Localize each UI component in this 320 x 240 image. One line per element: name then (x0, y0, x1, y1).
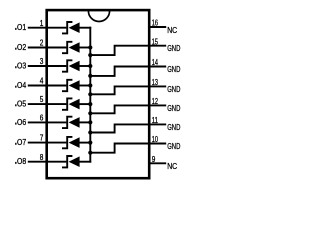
svg-text:10: 10 (152, 135, 159, 144)
svg-text:4: 4 (40, 77, 44, 86)
svg-text:12: 12 (152, 97, 159, 106)
svg-text:11: 11 (152, 116, 159, 125)
svg-text:15: 15 (152, 37, 159, 46)
svg-text:GND: GND (167, 85, 180, 94)
svg-text:1: 1 (40, 19, 44, 28)
svg-text:7: 7 (40, 134, 44, 143)
svg-text:6: 6 (40, 114, 44, 123)
svg-text:O4: O4 (17, 81, 27, 90)
svg-text:GND: GND (167, 104, 180, 113)
svg-text:NC: NC (167, 26, 177, 35)
svg-text:16: 16 (152, 19, 159, 28)
svg-text:O6: O6 (17, 118, 27, 127)
svg-text:3: 3 (40, 57, 44, 66)
svg-text:O8: O8 (17, 157, 27, 166)
svg-text:5: 5 (40, 95, 44, 104)
svg-text:2: 2 (40, 39, 44, 48)
svg-text:GND: GND (167, 123, 180, 132)
svg-text:NC: NC (167, 162, 177, 171)
svg-text:GND: GND (167, 44, 180, 53)
svg-text:8: 8 (40, 153, 44, 162)
svg-text:GND: GND (167, 142, 180, 151)
svg-text:O5: O5 (17, 100, 27, 109)
svg-text:GND: GND (167, 65, 180, 74)
svg-text:O2: O2 (17, 43, 27, 52)
svg-text:O7: O7 (17, 138, 27, 147)
svg-text:9: 9 (152, 155, 156, 164)
svg-text:O1: O1 (17, 23, 27, 32)
svg-text:14: 14 (152, 58, 159, 67)
svg-text:13: 13 (152, 78, 159, 87)
svg-text:O3: O3 (17, 61, 27, 70)
